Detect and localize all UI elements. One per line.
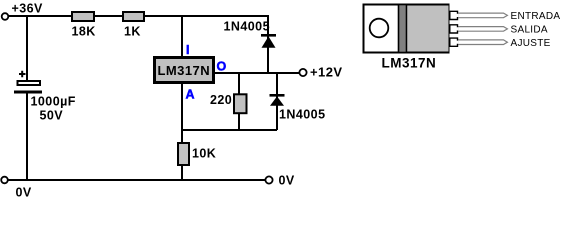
- wire diode D2 vertical branch: [276, 73, 278, 130]
- svg-text:1N4005: 1N4005: [224, 20, 271, 34]
- wire 220 resistor branch: [238, 73, 240, 130]
- package mounting hole: [370, 19, 389, 38]
- svg-text:A: A: [186, 88, 195, 102]
- terminal 0V right: [265, 176, 272, 183]
- svg-text:50V: 50V: [40, 109, 64, 123]
- resistor R3 220: [210, 93, 247, 113]
- terminal +36V: [2, 13, 9, 20]
- svg-text:ENTRADA: ENTRADA: [511, 11, 561, 22]
- svg-text:1K: 1K: [124, 25, 141, 39]
- pin lead SALIDA: [450, 25, 548, 36]
- svg-text:+12V: +12V: [310, 65, 343, 80]
- svg-text:10K: 10K: [192, 147, 216, 161]
- terminal +12V: [299, 69, 306, 76]
- resistor R1 18K: [72, 12, 96, 39]
- diode D1 1N4005: [224, 20, 277, 48]
- svg-text:0V: 0V: [279, 174, 295, 188]
- terminal 0V left: [1, 177, 8, 184]
- wire top rail +36V: [7, 15, 268, 17]
- capacitor C1 1000uF 50V: [14, 71, 76, 123]
- svg-text:+36V: +36V: [12, 2, 44, 16]
- wire capacitor branch upper: [26, 16, 28, 80]
- wire bottom rail 0V: [7, 179, 265, 181]
- wire output rail +12V: [214, 72, 300, 74]
- pin lead ENTRADA: [450, 11, 561, 22]
- svg-text:220: 220: [210, 93, 232, 107]
- wire adjust rail: [181, 129, 277, 131]
- resistor R2 1K: [123, 12, 144, 39]
- svg-text:1000µF: 1000µF: [31, 95, 76, 109]
- wire diode D1 vertical branch: [267, 15, 269, 73]
- svg-text:1N4005: 1N4005: [279, 108, 326, 122]
- wire capacitor branch lower: [26, 93, 28, 180]
- resistor R4 10K: [178, 143, 216, 165]
- svg-text:LM317N: LM317N: [382, 56, 437, 71]
- diode D2 1N4005: [270, 94, 326, 122]
- svg-text:AJUSTE: AJUSTE: [511, 38, 551, 49]
- svg-text:18K: 18K: [72, 25, 96, 39]
- wire adjust/10K vertical: [181, 84, 183, 180]
- svg-text:LM317N: LM317N: [158, 63, 211, 78]
- svg-text:0V: 0V: [16, 186, 32, 200]
- svg-text:O: O: [217, 60, 227, 74]
- wire LM317 input vertical: [181, 16, 183, 57]
- svg-text:SALIDA: SALIDA: [511, 25, 548, 36]
- transistor package TO-220 LM317N body: [364, 5, 449, 53]
- svg-text:I: I: [186, 43, 189, 57]
- pin lead AJUSTE: [450, 38, 551, 49]
- op-amp U1 LM317N regulator block: [155, 58, 214, 83]
